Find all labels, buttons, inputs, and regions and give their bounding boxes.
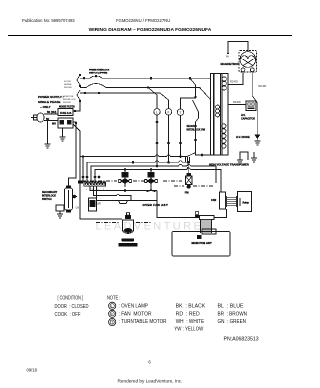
svg-text:FA: FA (226, 56, 229, 59)
svg-text:BR: BR (98, 203, 102, 206)
svg-text:FM: FM (185, 191, 189, 195)
transformer secondary coil (222, 124, 226, 148)
second interlock switch (193, 100, 199, 118)
magnetron terminals (241, 68, 245, 72)
svg-text:RD-RD: RD-RD (233, 101, 241, 104)
svg-text:RD : RED: RD : RED (176, 311, 200, 317)
hv capacitor label (241, 114, 255, 121)
svg-text:BK : BLACK: BK : BLACK (176, 304, 206, 310)
wire W2 to lamp (80, 84, 157, 109)
noise filter ground (62, 128, 64, 137)
chassis dash line 1 (82, 180, 117, 182)
svg-text:DOOR: DOOR (64, 81, 71, 83)
hv diode (251, 135, 260, 140)
cavity wire top (90, 186, 157, 190)
wire filter to loop left (73, 124, 80, 154)
magnetron feed wire (228, 42, 248, 54)
power supply label (38, 95, 64, 109)
svg-text:MAGNETRON: MAGNETRON (221, 62, 240, 66)
wire resistor to CN2 (214, 209, 227, 218)
fan vertical down (168, 115, 170, 162)
secondary interlock switch label (42, 191, 58, 201)
svg-text:PN:A06823513: PN:A06823513 (224, 337, 259, 343)
svg-text:SINGLE PHASE: SINGLE PHASE (38, 100, 60, 104)
main pcb assy box (172, 232, 230, 257)
buzzer connector (89, 198, 97, 211)
svg-text:RD-RD: RD-RD (230, 81, 238, 84)
bus wire 3 (91, 164, 216, 183)
magnetron dashed enclosure (239, 51, 257, 73)
high voltage transformer outline (211, 74, 229, 156)
svg-text:FGMO226NU / FPMO227NU: FGMO226NU / FPMO227NU (116, 18, 170, 23)
svg-text:BR : BROWN: BR : BROWN (218, 311, 248, 317)
svg-text:BK (WH): BK (WH) (47, 112, 57, 114)
ground at transformer (237, 160, 243, 164)
wire W2 end to transformer (148, 88, 211, 100)
svg-text:T: T (111, 321, 113, 325)
svg-text:: OVEN LAMP: : OVEN LAMP (119, 304, 149, 310)
bus wire 1 (80, 153, 196, 157)
title rule (8, 35, 292, 37)
svg-text:DOOR : CLOSED: DOOR : CLOSED (55, 304, 89, 310)
svg-text:F: F (111, 312, 113, 316)
svg-text:RD-RD: RD-RD (259, 85, 267, 88)
svg-text:CAPACITOR: CAPACITOR (241, 118, 255, 121)
svg-text:BL : BLUE: BL : BLUE (218, 304, 245, 310)
cavity wire bottom (97, 186, 158, 200)
svg-text:FUSE 12A: FUSE 12A (60, 112, 72, 115)
svg-text:[ CONDITION ]: [ CONDITION ] (58, 296, 84, 302)
second interlock switch branch (190, 78, 196, 97)
svg-text:OVEN FAN ASY: OVEN FAN ASY (143, 203, 169, 207)
svg-text:MONITOR: MONITOR (63, 96, 74, 98)
svg-text:Rendered by LeadVenture, Inc.: Rendered by LeadVenture, Inc. (118, 379, 183, 384)
fan motor F (165, 109, 171, 115)
turntable motor T (177, 109, 183, 115)
secondary interlock switch body (65, 188, 73, 210)
svg-text:Relay: Relay (243, 202, 250, 205)
prime interlock switch upper label (89, 69, 110, 74)
noise filter box (58, 118, 73, 128)
svg-text:CN2: CN2 (211, 198, 217, 202)
second interlock to transformer wire (196, 153, 211, 156)
svg-text:WIRING DIAGRAM – FGMO226NUDA F: WIRING DIAGRAM – FGMO226NUDA FGMO226NUFA (89, 27, 212, 33)
bus end connector hatch (186, 157, 190, 162)
thermistor (195, 211, 199, 215)
svg-text:MAIN PCB ASY: MAIN PCB ASY (192, 241, 212, 245)
svg-text:H.V. DIODE: H.V. DIODE (236, 135, 250, 139)
svg-text:GN : GREEN: GN : GREEN (218, 319, 247, 325)
strip CN8 label (78, 181, 83, 184)
turntable vertical down (180, 115, 182, 156)
svg-text:: TURNTABLE MOTOR: : TURNTABLE MOTOR (119, 319, 167, 325)
bus wire 1 drop to strip (82, 157, 84, 183)
svg-text:INTERLOCK SW: INTERLOCK SW (187, 128, 206, 131)
main pcb connector notch (202, 229, 216, 234)
svg-text:WH : WHITE: WH : WHITE (176, 319, 205, 325)
svg-text:SW-SW: SW-SW (64, 87, 73, 89)
svg-text:1: 1 (86, 189, 88, 191)
svg-text:LEADVENTURE: LEADVENTURE (96, 221, 204, 233)
lamp socket bulb (126, 212, 129, 215)
ground wire GN (47, 121, 49, 145)
svg-text:WH: WH (52, 124, 56, 126)
thermal cutout 2 (144, 169, 158, 192)
svg-text:CN: CN (76, 207, 80, 210)
wire from strip down to lamp socket (80, 184, 122, 219)
svg-text:F: F (167, 110, 169, 114)
thermal cutout 1 (118, 169, 132, 187)
svg-text:: FAN MOTOR: : FAN MOTOR (119, 311, 152, 317)
svg-text:POWER SUPPLY :: POWER SUPPLY : (38, 95, 64, 99)
lamp socket body (123, 220, 134, 234)
svg-text:NOTE :: NOTE : (107, 296, 121, 302)
monitor interlock switch (77, 90, 80, 100)
resistor on bottom wire (200, 215, 215, 219)
svg-text:~ ONLY: ~ ONLY (40, 105, 51, 109)
lamp vertical down (156, 115, 158, 166)
svg-text:YW : YELLOW: YW : YELLOW (174, 327, 203, 333)
CN2 connector (220, 192, 226, 209)
ribbon cable to relay (227, 198, 236, 206)
dash line through lamp socket (96, 222, 120, 224)
ground at secondary 2 (251, 158, 257, 162)
magnetron right terminal wire (252, 72, 257, 134)
relay box (238, 192, 252, 212)
door sense switch (77, 75, 80, 85)
svg-text:HIGH VOLTAGE TRANSFOMER: HIGH VOLTAGE TRANSFOMER (209, 163, 249, 167)
transformer secondary lead 2 (253, 152, 255, 158)
wire fuse out (73, 101, 80, 111)
svg-text:T: T (179, 111, 181, 115)
ground at diode (254, 141, 260, 145)
ground symbol (45, 144, 51, 148)
monitor interlock sw label (63, 96, 76, 104)
transformer primary coil (216, 77, 227, 117)
lamp socket label (119, 238, 138, 246)
left connector strip (84, 182, 106, 186)
wire to turntable motor (181, 98, 197, 109)
chassis dash line 2 (174, 185, 184, 187)
wire W3 to fan (80, 93, 169, 109)
bus wire 2 (87, 161, 189, 182)
wire filter out (69, 122, 77, 186)
svg-text:SENSE: SENSE (64, 84, 72, 86)
switch contact (74, 195, 78, 199)
strip pin numbers (86, 189, 105, 191)
door sense sw label (64, 81, 73, 89)
long wire to CN2 (95, 168, 221, 192)
svg-text:INTERLOCK: INTERLOCK (63, 99, 76, 101)
CN label on pcb (198, 236, 202, 239)
transformer secondary lead (240, 152, 248, 160)
sensor bump (119, 201, 128, 204)
fan motor FM (185, 174, 192, 195)
fuse box (58, 109, 73, 116)
magnetron body (240, 52, 256, 68)
svg-text:SWITCH (UPPER): SWITCH (UPPER) (89, 72, 108, 74)
svg-text:L: L (111, 304, 113, 308)
fan motor wire up (188, 162, 190, 173)
vertical ribbon to main pcb (202, 220, 210, 233)
svg-text:L: L (156, 110, 158, 114)
transformer core lines (212, 74, 214, 156)
oven lamp L (154, 109, 160, 115)
svg-text:6: 6 (148, 360, 151, 365)
svg-text:SWITCH: SWITCH (42, 198, 52, 201)
svg-text:PRIME INTERLOCK: PRIME INTERLOCK (89, 69, 110, 71)
cavity right edge (156, 191, 158, 201)
plug (31, 117, 37, 119)
wire W1 with prime interlock switch (80, 76, 211, 78)
CN terminal with ground (56, 205, 64, 211)
svg-text:COOK : OFF: COOK : OFF (55, 312, 81, 318)
hv capacitor (246, 101, 256, 111)
svg-text:Publication No: 5995707493: Publication No: 5995707493 (22, 18, 75, 23)
svg-text:SW-SW: SW-SW (63, 102, 72, 104)
svg-text:09/18: 09/18 (27, 368, 38, 373)
cavity wire mid (94, 186, 132, 200)
wire labels BK WH (46, 112, 57, 126)
bottom wire from cavity (157, 201, 200, 218)
second interlock sw vertical down (196, 118, 199, 153)
junction dots above strip (82, 176, 84, 178)
